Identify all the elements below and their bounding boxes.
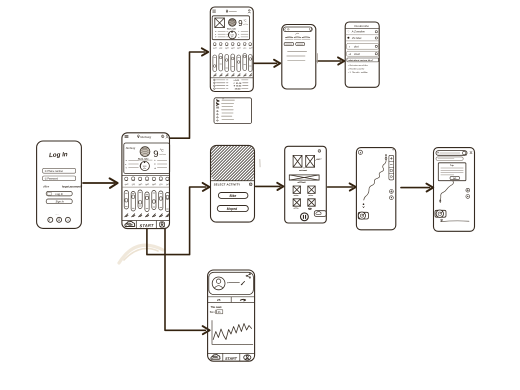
svg-text:dust: dust (354, 46, 359, 49)
svg-text:This week: This week (211, 307, 223, 309)
svg-text:9am: 9am (213, 47, 217, 50)
svg-text:hPa: hPa (231, 37, 234, 39)
customize row 2: UV index toggle (345, 37, 379, 41)
graph tick marks (215, 343, 251, 346)
svg-text:9: 9 (238, 19, 242, 28)
svg-text:↑ 06:40: ↑ 06:40 (234, 88, 242, 91)
pause button (301, 213, 309, 221)
svg-text:☁: ☁ (154, 167, 156, 169)
sun icon (scribbled) (140, 147, 150, 157)
temperature slider column 7 (165, 193, 169, 212)
phone: login screen outline (37, 141, 82, 228)
svg-text:f: f (49, 218, 50, 222)
list panel first-row label (222, 98, 224, 100)
button: Moped (217, 206, 248, 212)
svg-text:☀: ☀ (238, 30, 240, 33)
svg-text:12p: 12p (131, 183, 136, 186)
bottom bar START button (140, 223, 154, 228)
svg-text:Log In: Log In (56, 192, 64, 196)
wire: forecast phone -> search screen (254, 60, 280, 67)
forecast slider column 3 (225, 55, 229, 72)
trip info card (438, 163, 466, 181)
distance and time stat (210, 310, 223, 314)
temperature slider column 4 (145, 192, 149, 212)
sub label "Nurb. lake" (138, 158, 152, 160)
svg-text:3pm: 3pm (225, 47, 229, 50)
svg-text:+ 1. Tile edit + add/km: + 1. Tile edit + add/km (348, 71, 368, 74)
wire: home top-right -> forecast phone (170, 48, 209, 138)
map side buttons (390, 190, 394, 200)
forecast hourly icons row (213, 42, 251, 45)
svg-text:6pm: 6pm (231, 47, 235, 50)
forecast slider column 4 (231, 54, 235, 72)
list panel leading icons column (216, 100, 219, 122)
temperature slider column 5 (152, 191, 156, 210)
smudge: faint eraser mark under home phone (119, 245, 163, 263)
svg-text:UV index: UV index (352, 37, 363, 40)
svg-text:hPa: hPa (143, 168, 146, 170)
bottom bar cloud sync icon (125, 221, 135, 226)
svg-text:☀ 16:02: ☀ 16:02 (234, 85, 243, 88)
big temperature 9C (238, 19, 248, 29)
typing hint squiggle (295, 33, 298, 34)
wire: session grid -> map route screen (328, 183, 356, 190)
login input: password (43, 176, 76, 181)
divider above sun times list (210, 77, 253, 79)
svg-text:① Phone number: ① Phone number (45, 170, 64, 173)
panel: customize settings outline (345, 22, 379, 87)
svg-text:⚆: ⚆ (67, 218, 70, 222)
customize bullet notes (348, 64, 368, 74)
svg-text:9: 9 (153, 149, 158, 160)
svg-text:swipe: swipe (317, 158, 323, 160)
panel: location list dropdown outline (214, 98, 252, 124)
svg-text:Bike: Bike (230, 194, 237, 198)
wire: select activity -> session grid screen (256, 183, 284, 190)
wire: start button -> select activity screen (147, 183, 210, 255)
pressure gauge dial (228, 31, 236, 39)
customize row 3: dust box (347, 44, 379, 50)
svg-text:5km: 5km (210, 310, 215, 314)
pressure gauge dial (140, 161, 149, 170)
weather details list left (125, 159, 138, 169)
sun icon (dark scribbled) (229, 19, 237, 27)
svg-text:A-Z weather: A-Z weather (351, 31, 365, 34)
phone: forecast screen outline (210, 7, 253, 92)
forecast slider column 2 (219, 54, 223, 72)
forecast hourly labels (213, 47, 253, 50)
hatched map placeholder area (166, 138, 302, 184)
svg-text:forgot password?: forgot password? (62, 186, 83, 189)
svg-text:9am: 9am (125, 183, 130, 186)
map locate icon top-left (358, 150, 362, 154)
svg-text:9°: 9° (222, 98, 224, 100)
svg-text:◑: ◑ (349, 46, 351, 49)
svg-text:12a: 12a (243, 47, 246, 50)
option X-box D (308, 199, 315, 210)
svg-text:≈ 5:11: ≈ 5:11 (234, 79, 241, 82)
detail search bar (436, 151, 472, 156)
route squiggle path (363, 159, 386, 208)
svg-text:▲: ▲ (125, 159, 127, 162)
scrollbar tick (316, 54, 318, 64)
wire: search screen -> customize panel (318, 57, 345, 64)
home top bar: location pin and city label (138, 135, 152, 139)
speedometer widget bottom-left (358, 212, 368, 219)
graph wiggle line (213, 324, 251, 340)
this week label (211, 307, 223, 309)
svg-text:☾ 21:18: ☾ 21:18 (234, 82, 243, 85)
svg-text:25: 25 (217, 298, 221, 302)
forecast details list left (215, 31, 228, 38)
forecast top bar (213, 10, 251, 13)
route banner with X (289, 175, 319, 180)
login input: phone number (43, 168, 76, 173)
suggestion words row (285, 37, 310, 39)
select activity label row (214, 182, 252, 186)
customize question header box (347, 58, 379, 62)
divider above sliders (122, 186, 170, 188)
svg-text:3am: 3am (249, 47, 253, 50)
svg-text:what about custom tiles?: what about custom tiles? (348, 59, 374, 62)
result placeholder lines (287, 52, 307, 61)
svg-text:9pm: 9pm (237, 47, 241, 50)
phone: profile screen outline (208, 270, 255, 361)
svg-text:Customize: Customize (354, 24, 369, 28)
svg-text:Nurburg: Nurburg (140, 135, 151, 139)
svg-text:START: START (140, 223, 154, 228)
forecast details list right (238, 30, 248, 38)
divider under summary card (122, 175, 170, 177)
svg-text:6pm: 6pm (145, 183, 150, 186)
detail speedometer widget (435, 210, 446, 217)
phone: map route screen outline (356, 148, 395, 230)
image placeholder X-box (215, 18, 225, 28)
bottom right weather tab (314, 211, 326, 217)
customize row 1: A-Z weather toggle (345, 31, 379, 35)
svg-text:▼: ▼ (215, 37, 217, 39)
home top bar: menu icon (125, 135, 128, 137)
svg-text:°C: °C (244, 19, 247, 23)
login helper row: offline / forgot password (43, 186, 83, 189)
sun times list right column (234, 79, 249, 91)
phone: session setup grid screen outline (285, 146, 327, 223)
search bar pill (283, 27, 312, 32)
svg-text:●: ● (125, 164, 126, 166)
customize title (345, 24, 379, 28)
profile header card (209, 272, 254, 294)
svg-text:☁: ☁ (238, 37, 240, 39)
profile name line (227, 282, 239, 283)
svg-text:Sign In: Sign In (56, 200, 65, 204)
svg-text:② Password: ② Password (45, 177, 59, 180)
hourly forecast icons row (125, 177, 169, 181)
wire: login -> home arrow (83, 178, 118, 188)
route start pin (385, 154, 387, 159)
weather details list right (154, 159, 167, 169)
banner caption (298, 181, 306, 184)
forecast slider column 5 (237, 55, 241, 72)
svg-text:.....: ..... (55, 213, 59, 216)
detail side buttons (466, 188, 470, 198)
sign-in button "Sign In" (46, 199, 72, 204)
svg-text:▲: ▲ (215, 31, 217, 33)
recent chips (284, 42, 305, 45)
carousel page dot (304, 167, 305, 168)
svg-text:☂: ☂ (154, 163, 156, 166)
avatar circle with person (212, 277, 225, 290)
svg-text:START: START (225, 357, 238, 361)
edit pencil (241, 281, 244, 284)
svg-text:Trip: Trip (450, 165, 454, 167)
list panel text lines (222, 100, 235, 119)
bottom bar profile icon (160, 222, 165, 227)
forecast slider value marks (214, 74, 252, 77)
stats tab row (208, 297, 255, 303)
svg-text:9pm: 9pm (152, 183, 157, 186)
svg-text:Log In: Log In (49, 151, 68, 159)
hourly labels row (125, 183, 171, 186)
temperature slider column 6 (159, 191, 163, 210)
carousel caption (299, 169, 306, 172)
share icon (246, 273, 251, 278)
sun times list left column (214, 79, 228, 89)
svg-text:+1: +1 (348, 53, 351, 56)
social icon: facebook (48, 217, 53, 222)
option X-box A (293, 186, 300, 196)
svg-text:Moped: Moped (227, 207, 237, 211)
profile bottom bar cloud icon (211, 355, 220, 360)
carousel X-box left (293, 155, 302, 167)
svg-text:12a: 12a (159, 183, 164, 186)
forecast slider column 6 (243, 54, 247, 71)
forecast slider column 7 (249, 55, 253, 72)
carousel X-box right (306, 155, 315, 167)
home bottom bar frame (122, 221, 170, 229)
svg-text:cloud: cloud (354, 53, 360, 56)
phone: map detail screen outline (434, 148, 475, 232)
svg-text:●: ● (215, 34, 216, 36)
svg-text:SELECT ACTIVITY: SELECT ACTIVITY (214, 182, 241, 186)
forecast summary card (212, 16, 249, 40)
profile bottom bar START (225, 357, 238, 361)
customize row 4: +1 cloud box (347, 51, 379, 56)
svg-text:1013: 1013 (143, 166, 147, 168)
home weather summary card (124, 143, 170, 174)
grid screen gear icon (318, 150, 321, 153)
phone: select activity screen outline (211, 145, 255, 222)
svg-text:offline: offline (43, 187, 50, 189)
login button "Log In" (46, 191, 72, 196)
activity graph axes (212, 321, 253, 345)
profile bottom bar person icon (244, 355, 251, 360)
map zoom control column (389, 155, 394, 180)
svg-text:♡: ♡ (347, 31, 349, 34)
social icon: google (57, 217, 62, 222)
option X-box C (293, 199, 300, 209)
sub label "Nurb lake" (227, 28, 236, 30)
detail route squiggle (440, 181, 454, 203)
login title "Log In" (49, 151, 68, 159)
svg-text:+ Reorder card list: + Reorder card list (348, 68, 365, 71)
temperature slider column 2 (131, 192, 135, 212)
swipe annotation (315, 158, 322, 160)
svg-text:3pm: 3pm (138, 183, 143, 186)
social icon: extra (65, 217, 70, 222)
svg-text:°C: °C (160, 148, 164, 152)
slider value marks row (125, 214, 169, 217)
profile bottom bar frame (208, 353, 255, 360)
phone: home weather screen outline (122, 133, 170, 229)
svg-text:Nurb. lake: Nurb. lake (227, 28, 236, 30)
smudge: faint tick left of grid screen (259, 160, 261, 167)
forecast slider column 1 (213, 55, 217, 72)
big temperature 9C (153, 148, 166, 160)
svg-text:GO: GO (453, 178, 457, 180)
svg-text:Nurburg: Nurburg (126, 146, 136, 150)
map tiny corner mark (393, 149, 394, 150)
svg-text:▼: ▼ (125, 166, 127, 169)
temperature slider column 1 (124, 191, 128, 210)
detail secondary bar (436, 157, 463, 161)
svg-text:+ Get extra row of tiles: + Get extra row of tiles (348, 64, 368, 67)
wire: map route -> map detail screen (401, 184, 433, 192)
option X-box B (308, 186, 315, 196)
svg-text:12p: 12p (219, 47, 222, 50)
wire: profile button -> profile screen (165, 229, 210, 335)
social divider dots (55, 213, 59, 216)
svg-text:1013: 1013 (231, 35, 235, 37)
svg-text:☂: ☂ (238, 33, 240, 36)
bottom drawer handle with pin (441, 219, 469, 222)
phone: search screen outline (282, 25, 316, 90)
temperature slider column 3 (138, 190, 142, 209)
home top bar: sound and profile icons (162, 135, 169, 138)
button: Bike (218, 193, 248, 199)
